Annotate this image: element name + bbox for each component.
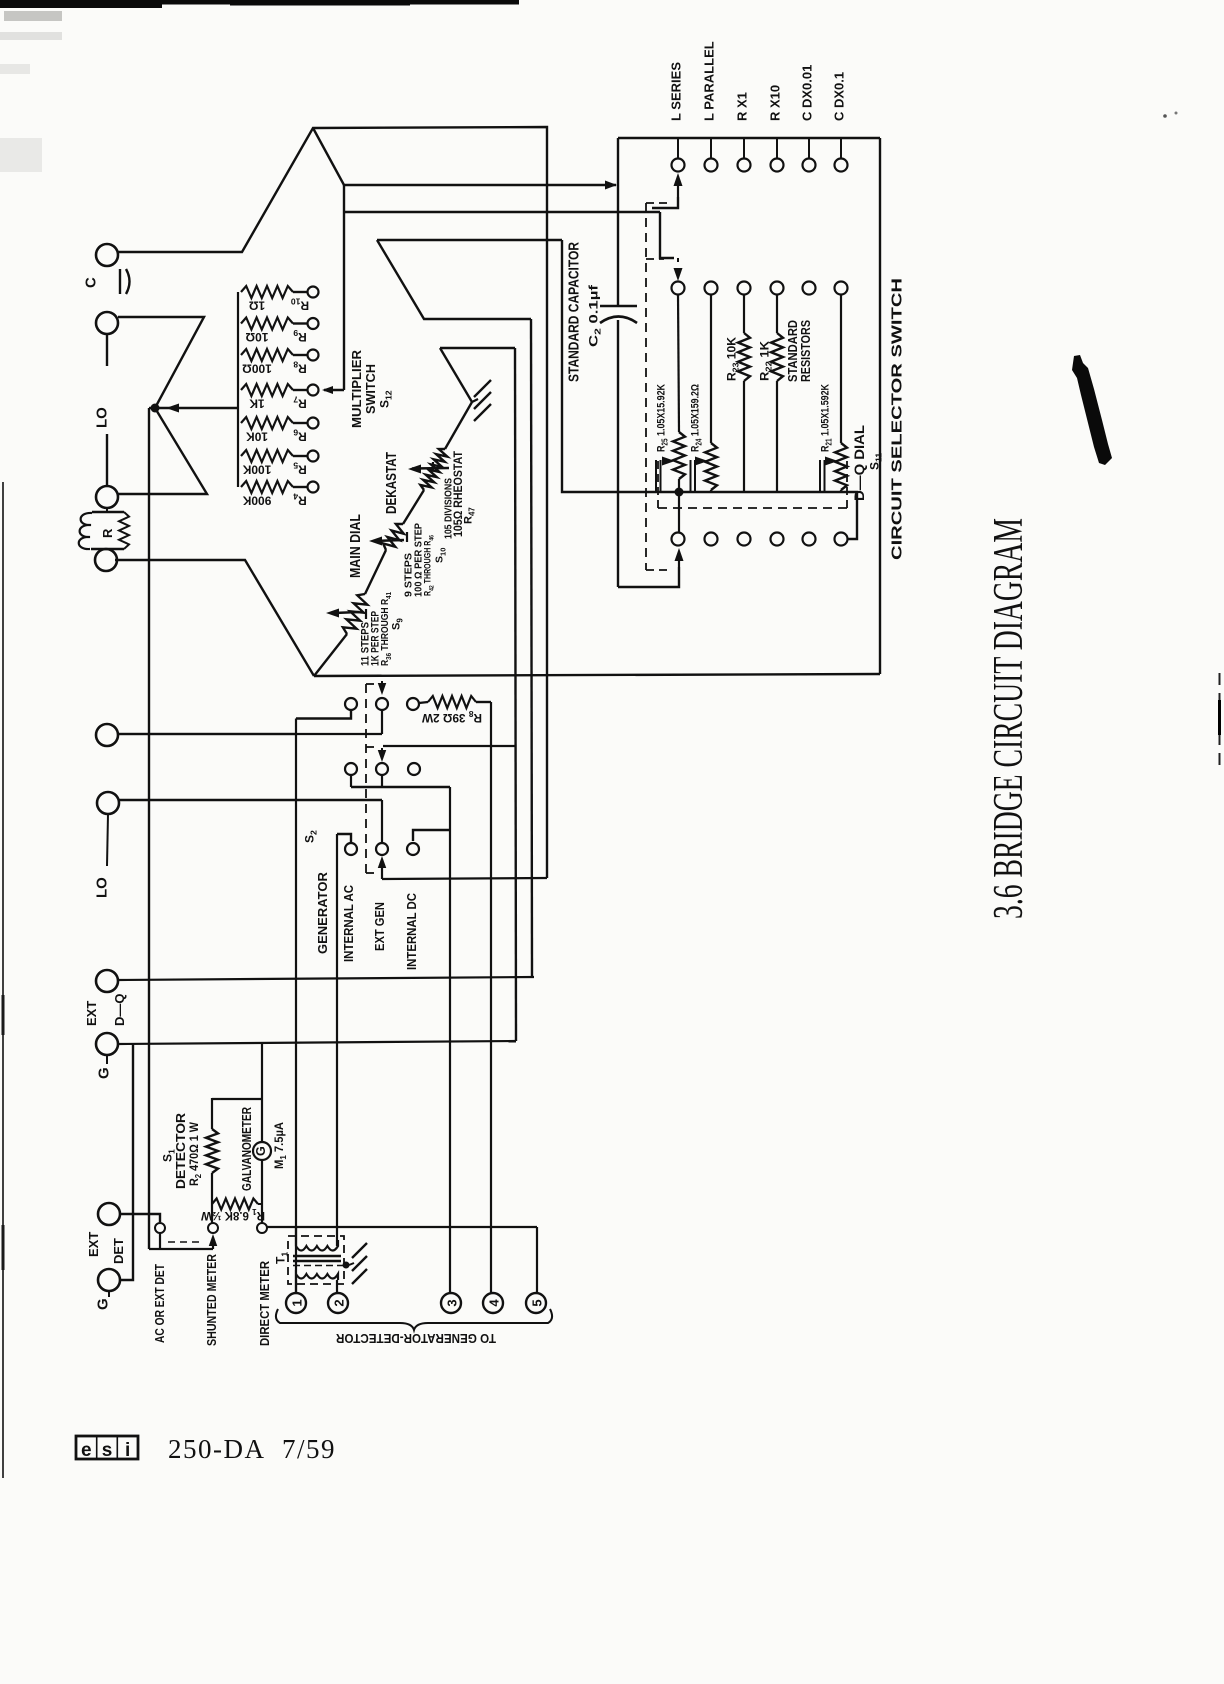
svg-text:EXT GEN: EXT GEN: [373, 902, 387, 951]
svg-text:GENERATOR: GENERATOR: [315, 872, 330, 954]
svg-text:7/59: 7/59: [282, 1434, 336, 1464]
svg-text:s: s: [102, 1440, 113, 1461]
svg-text:DET: DET: [111, 1238, 126, 1264]
svg-text:i: i: [125, 1440, 130, 1461]
svg-text:SHUNTED METER: SHUNTED METER: [205, 1254, 219, 1346]
svg-text:R X1: R X1: [735, 92, 750, 121]
svg-text:5: 5: [530, 1299, 545, 1306]
svg-text:EXT: EXT: [84, 1001, 99, 1026]
svg-text:10Ω: 10Ω: [245, 330, 268, 344]
svg-text:D—Q: D—Q: [112, 994, 127, 1027]
svg-text:C2​ 0.1µf: C2​ 0.1µf: [586, 284, 602, 347]
svg-text:INTERNAL AC: INTERNAL AC: [342, 885, 356, 962]
svg-text:L PARALLEL: L PARALLEL: [702, 41, 717, 121]
svg-text:3: 3: [445, 1299, 460, 1306]
svg-text:C DX0.01: C DX0.01: [800, 65, 815, 121]
svg-text:1K: 1K: [249, 397, 265, 411]
svg-text:4: 4: [487, 1299, 502, 1307]
svg-text:G: G: [95, 1298, 112, 1310]
svg-text:C DX0.1: C DX0.1: [832, 72, 847, 121]
svg-text:AC OR EXT DET: AC OR EXT DET: [153, 1264, 167, 1343]
svg-text:M1​ 7.5µA: M1​ 7.5µA: [274, 1122, 288, 1169]
svg-text:250-DA: 250-DA: [168, 1434, 266, 1464]
svg-text:DETECTOR: DETECTOR: [173, 1112, 188, 1189]
svg-text:MAIN DIAL: MAIN DIAL: [348, 514, 364, 578]
svg-text:900K: 900K: [242, 494, 271, 508]
svg-text:1: 1: [290, 1299, 305, 1306]
svg-text:G: G: [254, 1146, 268, 1156]
svg-text:CIRCUIT SELECTOR SWITCH: CIRCUIT SELECTOR SWITCH: [889, 278, 906, 560]
svg-text:100K: 100K: [242, 463, 271, 477]
svg-text:R: R: [100, 528, 115, 538]
svg-text:R22​ 1K: R22​ 1K: [757, 341, 773, 381]
svg-text:R X10: R X10: [768, 85, 783, 121]
svg-text:e: e: [81, 1440, 92, 1461]
svg-text:C: C: [83, 277, 100, 288]
svg-text:DIRECT METER: DIRECT METER: [258, 1261, 272, 1346]
svg-text:2: 2: [332, 1299, 347, 1306]
svg-text:GALVANOMETER: GALVANOMETER: [239, 1107, 254, 1191]
svg-text:TO GENERATOR-DETECTOR: TO GENERATOR-DETECTOR: [335, 1331, 496, 1346]
svg-text:L SERIES: L SERIES: [669, 62, 684, 121]
svg-text:LO: LO: [94, 407, 111, 428]
svg-text:MULTIPLIER: MULTIPLIER: [349, 349, 364, 428]
svg-text:R23​ 10K: R23​ 10K: [724, 337, 740, 381]
svg-text:SWITCH: SWITCH: [363, 364, 378, 414]
svg-text:1Ω: 1Ω: [248, 299, 265, 313]
svg-text:RESISTORS: RESISTORS: [798, 320, 813, 382]
svg-text:EXT: EXT: [86, 1232, 101, 1257]
svg-text:INTERNAL DC: INTERNAL DC: [405, 893, 419, 970]
svg-text:10K: 10K: [246, 430, 268, 444]
svg-text:D—Q DIAL: D—Q DIAL: [851, 425, 867, 501]
svg-text:LO: LO: [94, 877, 111, 898]
svg-text:STANDARD CAPACITOR: STANDARD CAPACITOR: [566, 242, 583, 382]
svg-text:DEKASTAT: DEKASTAT: [384, 452, 400, 514]
svg-text:100Ω: 100Ω: [242, 362, 272, 376]
svg-text:G: G: [96, 1067, 113, 1079]
svg-text:3.6 BRIDGE CIRCUIT DIAGRAM: 3.6 BRIDGE CIRCUIT DIAGRAM: [986, 518, 1032, 919]
